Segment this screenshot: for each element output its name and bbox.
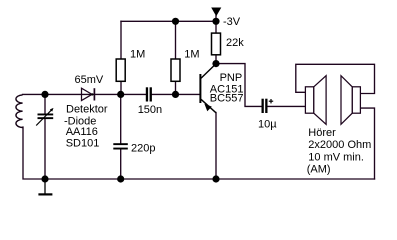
svg-text:10 mV min.: 10 mV min. [308, 151, 364, 163]
wire collector to output cap [216, 64, 262, 107]
node G ground junction [41, 175, 48, 182]
resistor R2 1M body [171, 59, 180, 81]
svg-text:-3V: -3V [223, 16, 241, 28]
wire 150n to node C [152, 93, 176, 95]
node E supply junction [212, 18, 219, 25]
svg-text:Hörer: Hörer [308, 127, 336, 139]
diode D1 apex junction dot [91, 93, 93, 95]
node B diode output junction [117, 91, 124, 98]
wire 10u cap to left speaker [267, 105, 305, 107]
wire node C to transistor base [176, 93, 200, 95]
variable capacitor C1 arrow [36, 109, 52, 126]
svg-text:PNP: PNP [220, 72, 243, 84]
variable capacitor C1 plates [38, 114, 54, 120]
wire variable cap column [44, 94, 46, 113]
resistor R3 22k body [212, 33, 221, 55]
node D R2 top junction [172, 18, 179, 25]
capacitor C4 10u electrolytic plates [262, 99, 268, 113]
node A tank top junction [41, 91, 48, 98]
wire R1 column [120, 21, 122, 94]
svg-text:Detektor: Detektor [66, 104, 108, 116]
svg-text:22k: 22k [226, 37, 244, 49]
svg-text:65mV: 65mV [75, 74, 104, 86]
wire right speaker bottom terminal [360, 108, 374, 179]
wire 22k column [215, 21, 217, 63]
wire bottom rail y=179 [23, 127, 375, 179]
wire R2 column [175, 21, 177, 94]
wire emitter to bottom rail [215, 113, 217, 180]
capacitor C2 150n plates [146, 87, 152, 101]
node I emitter bottom junction [212, 175, 219, 182]
wire 220p column [120, 94, 122, 143]
svg-text:1M: 1M [184, 49, 199, 61]
ground symbol [38, 179, 52, 194]
svg-text:10µ: 10µ [258, 118, 277, 130]
wire main signal line y=94.4 [23, 93, 146, 95]
capacitor C4 plus sign [269, 99, 273, 103]
svg-text:220p: 220p [131, 143, 155, 155]
node H 220p bottom junction [117, 175, 124, 182]
svg-text:1M: 1M [130, 49, 145, 61]
node C base junction [172, 91, 179, 98]
svg-text:2x2000 Ohm: 2x2000 Ohm [308, 139, 371, 151]
svg-text:SD101: SD101 [66, 138, 100, 150]
svg-text:AA116: AA116 [66, 126, 98, 138]
speaker LS1 left [305, 76, 326, 125]
power symbol -3V triangle [211, 8, 221, 17]
svg-text:BC557: BC557 [210, 93, 244, 105]
resistor R1 1M body [116, 59, 125, 81]
wire -3V stem [215, 16, 217, 22]
svg-text:150n: 150n [138, 104, 162, 116]
inductor L1 antenna coil [16, 95, 23, 128]
svg-text:(AM): (AM) [307, 164, 331, 176]
transistor Q1 emitter arrow [204, 104, 211, 111]
diode D1 detector [82, 88, 95, 100]
wire top rail y=21.3 [121, 20, 216, 22]
capacitor C3 220p plates [113, 143, 128, 149]
transistor Q1 PNP [200, 64, 216, 113]
node F collector junction [212, 60, 219, 67]
wire left speaker top terminal [296, 64, 375, 93]
speaker LS2 right [341, 76, 360, 125]
